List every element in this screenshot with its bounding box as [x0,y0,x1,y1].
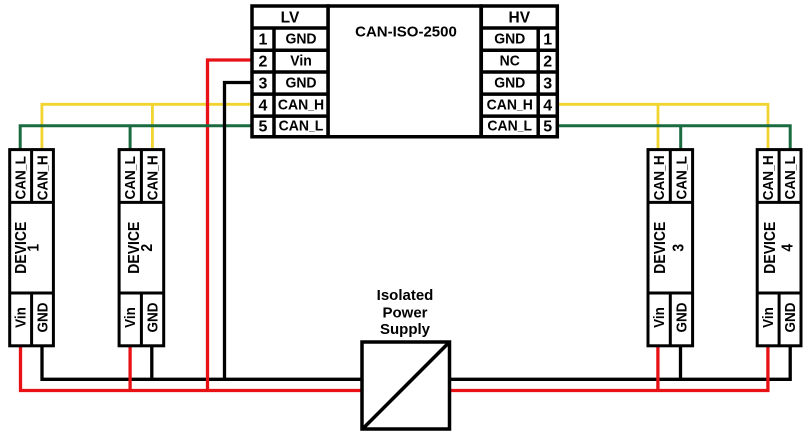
isolated power supply PS1 box with diagonal [362,342,450,429]
svg-text:2: 2 [543,54,552,71]
svg-text:GND: GND [494,75,525,92]
wire: black GND drop from DEVICE 3 GND [679,344,682,379]
svg-text:2: 2 [259,54,268,71]
svg-text:GND: GND [145,303,162,333]
svg-text:Supply: Supply [380,321,431,338]
HV side connector table [481,6,557,137]
wire: black GND bus from DEVICE 1 GND to supply left [42,344,362,379]
DEVICE 3 name label [652,222,687,274]
svg-text:Vin: Vin [651,307,668,328]
device DEVICE 3 box [648,150,693,346]
wire: red Vin from LV pin 2, upper segment [208,60,253,128]
wire: yellow CAN_H branch to DEVICE 2 CAN_H [151,104,154,151]
svg-text:CAN_L: CAN_L [782,156,799,200]
wire: red Vin bus from DEVICE 1 Vin to supply left [21,344,363,390]
svg-text:CAN_H: CAN_H [651,155,668,200]
svg-text:Vin: Vin [290,53,312,70]
svg-text:HV: HV [509,10,531,27]
svg-text:NC: NC [500,53,521,70]
isolated power supply label [377,287,434,338]
svg-text:2: 2 [139,244,156,252]
svg-text:GND: GND [285,31,316,48]
svg-text:CAN_H: CAN_H [278,97,324,114]
svg-text:DEVICE: DEVICE [762,222,779,274]
device DEVICE 2 box [119,150,164,346]
svg-text:GND: GND [285,75,316,92]
LV side connector table [252,6,328,137]
device DEVICE 1 box [10,150,54,346]
svg-text:CAN_H: CAN_H [145,155,162,200]
wire: green CAN_L net from HV pin 5 to DEVICE 4 CAN_L [557,126,790,151]
wire: green CAN_L branch to DEVICE 3 CAN_L [679,126,682,151]
wire: black GND drop from DEVICE 2 GND [150,344,153,379]
svg-text:Isolated: Isolated [377,287,434,304]
DEVICE 4 name label [762,222,796,274]
isolator module U1 CAN-ISO-2500 body [328,6,481,137]
svg-text:GND: GND [35,303,52,333]
svg-text:5: 5 [259,119,268,136]
svg-text:GND: GND [674,303,691,333]
wire: yellow CAN_H net from LV pin 4 to DEVICE 1 CAN_H [42,104,252,151]
svg-text:CAN_H: CAN_H [35,155,52,200]
svg-text:CAN_L: CAN_L [487,118,532,135]
wire: red Vin from LV pin 2, lower segment to red bus [206,127,209,390]
svg-text:CAN_H: CAN_H [487,97,533,114]
wire: black GND from LV pin 3 down to black supply bus [225,83,253,381]
wire: red Vin drop from DEVICE 2 Vin [128,344,131,390]
svg-text:1: 1 [259,32,268,49]
svg-text:Vin: Vin [122,307,139,328]
svg-text:CAN_L: CAN_L [13,156,30,200]
wire: green CAN_L branch to DEVICE 2 CAN_L [129,126,132,151]
device DEVICE 4 box [757,150,801,346]
svg-text:Vin: Vin [760,307,777,328]
svg-text:1: 1 [26,244,43,252]
wire: red Vin bus from supply right to DEVICE 4 Vin [450,344,768,390]
svg-text:GND: GND [782,303,799,333]
svg-text:4: 4 [780,243,797,251]
svg-text:CAN_L: CAN_L [122,156,139,200]
svg-text:4: 4 [543,98,552,115]
svg-text:3: 3 [259,76,268,93]
svg-text:CAN-ISO-2500: CAN-ISO-2500 [355,24,457,41]
svg-text:DEVICE: DEVICE [652,222,669,274]
DEVICE 2 name label [126,222,156,274]
svg-text:CAN_L: CAN_L [279,118,324,135]
DEVICE 1 name label [13,222,42,274]
wire: black GND bus from supply right to DEVICE 4 GND [450,344,791,379]
wire: yellow CAN_H net from HV pin 4 to DEVICE 4 CAN_H [557,104,768,151]
svg-text:Vin: Vin [13,307,30,328]
svg-text:CAN_L: CAN_L [674,156,691,200]
svg-text:4: 4 [259,98,268,115]
wire: red Vin drop from DEVICE 3 Vin [656,344,659,390]
wire: yellow CAN_H branch to DEVICE 3 CAN_H [657,104,660,151]
svg-text:Power: Power [382,305,427,322]
svg-text:3: 3 [671,244,688,252]
svg-text:5: 5 [543,119,552,136]
svg-text:1: 1 [543,32,552,49]
svg-text:GND: GND [494,31,525,48]
svg-text:CAN_H: CAN_H [760,155,777,200]
wire: green CAN_L net from LV pin 5 to DEVICE 1 CAN_L [20,126,252,151]
svg-text:3: 3 [543,76,552,93]
svg-text:LV: LV [281,10,300,27]
